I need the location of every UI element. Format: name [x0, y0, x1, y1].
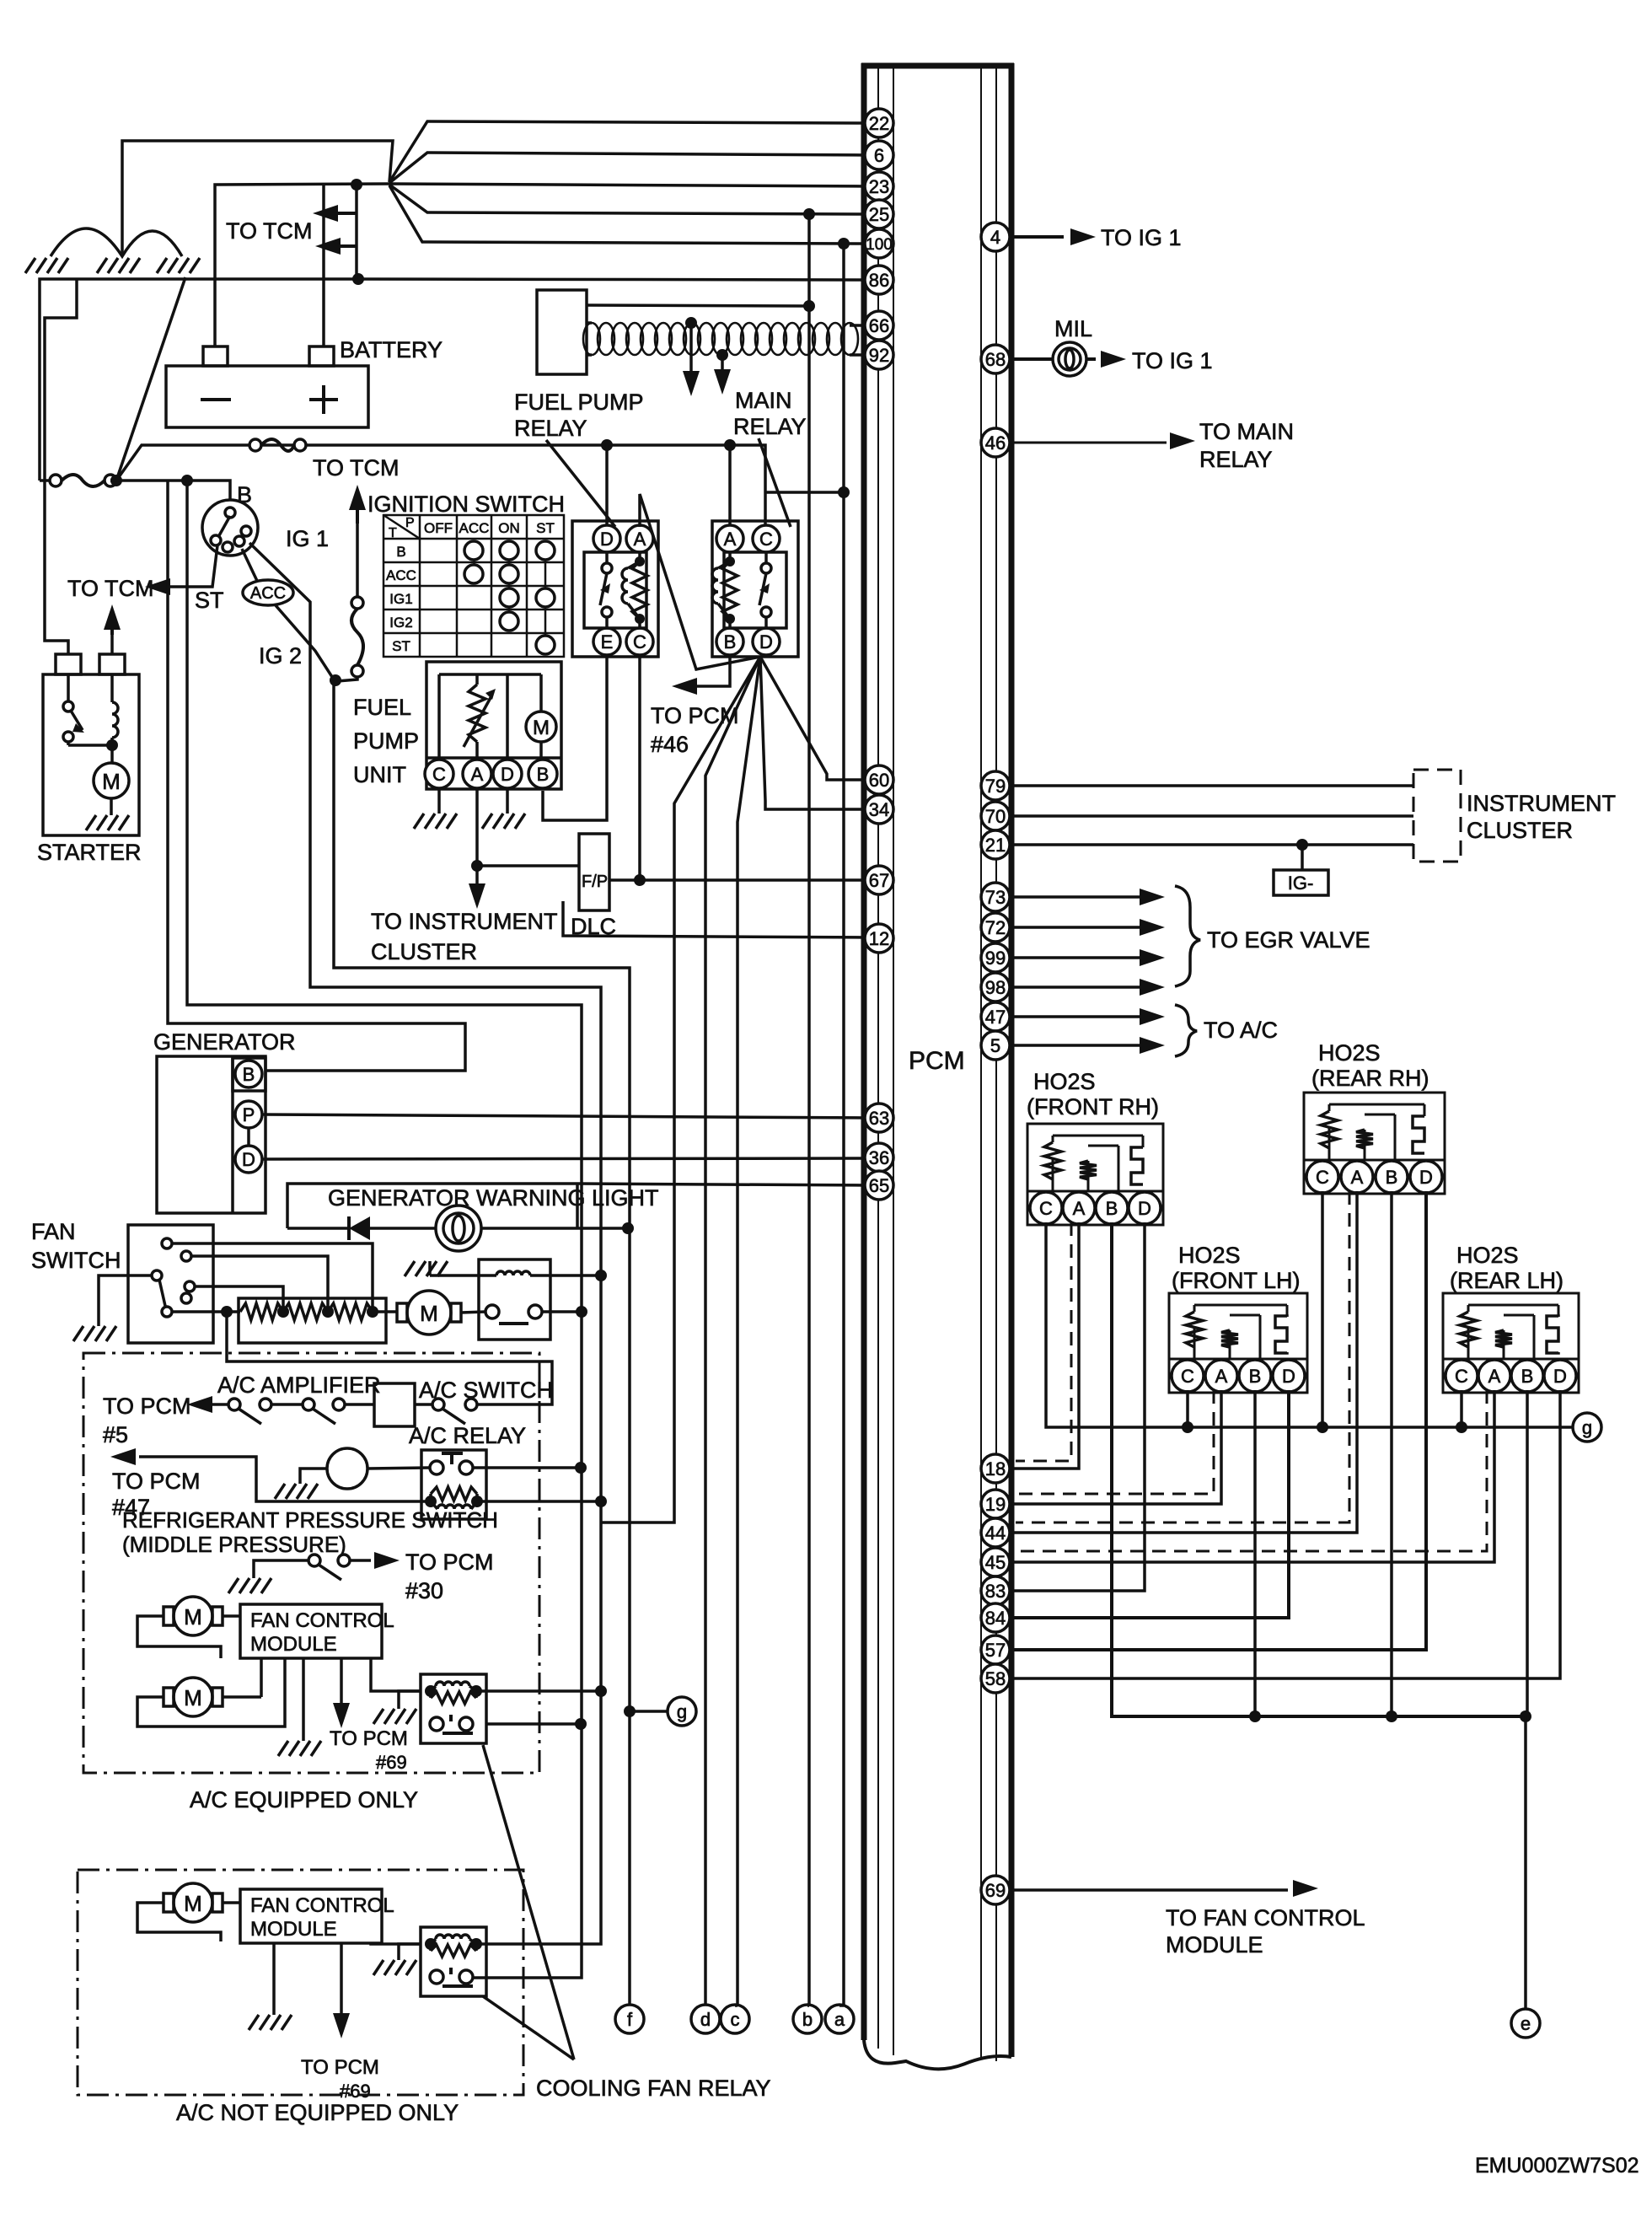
relay K3 blower relay [479, 1259, 550, 1340]
svg-text:B: B [1386, 1167, 1398, 1188]
svg-text:#69: #69 [376, 1752, 407, 1773]
brace A/C [1175, 1005, 1197, 1056]
svg-text:A: A [1073, 1198, 1086, 1219]
wire pin 21 to cluster [1011, 843, 1413, 846]
wire to pin 23 [389, 184, 868, 186]
svg-text:D: D [501, 764, 514, 785]
wire generator P to pin 63 [262, 1114, 868, 1118]
node e [1511, 2009, 1540, 2038]
wire FRONT LH D to pin 84 [1011, 1390, 1289, 1618]
svg-text:TO EGR VALVE: TO EGR VALVE [1207, 927, 1370, 953]
PCM pin 44 [981, 1518, 1010, 1547]
arrow to TCM 1 [313, 205, 338, 222]
svg-text:C: C [1039, 1198, 1053, 1219]
svg-text:63: 63 [869, 1108, 889, 1129]
wire to pin 100 [389, 185, 868, 244]
svg-text:34: 34 [869, 799, 889, 820]
svg-text:g: g [1582, 1417, 1592, 1438]
svg-text:6: 6 [874, 145, 884, 166]
svg-text:58: 58 [985, 1668, 1006, 1689]
svg-text:C: C [759, 529, 773, 550]
wire fan sw med [191, 1256, 328, 1312]
ground [97, 258, 140, 273]
svg-text:M: M [420, 1301, 438, 1326]
svg-text:84: 84 [985, 1608, 1006, 1629]
svg-text:UNIT: UNIT [353, 762, 406, 787]
wire A/C relay coil right [477, 1500, 601, 1503]
wire battery area top loop [122, 141, 393, 256]
svg-text:HO2S: HO2S [1178, 1243, 1241, 1268]
arrow TO TCM up [349, 485, 366, 510]
svg-text:TO PCM: TO PCM [112, 1469, 201, 1494]
ground [373, 1709, 416, 1724]
svg-text:B: B [237, 482, 252, 507]
PCM pin 92 [865, 341, 893, 369]
PCM pin 67 [865, 866, 893, 894]
PCM pin 6 [865, 141, 893, 169]
wire to pin 22 [389, 121, 868, 182]
svg-text:IG-: IG- [1288, 873, 1314, 894]
svg-text:98: 98 [985, 977, 1006, 998]
PCM pin 18 [981, 1454, 1010, 1483]
HO2S sensor (FRONT RH) [1027, 1124, 1163, 1225]
A/C relay coil+resistor [431, 1487, 477, 1501]
wire IG1 to corridor [249, 543, 601, 1944]
svg-text:100: 100 [866, 236, 893, 254]
wire main relay D fan to c-line [737, 657, 760, 2006]
svg-text:RELAY: RELAY [1199, 447, 1273, 472]
svg-text:A: A [724, 529, 737, 550]
svg-text:65: 65 [869, 1175, 889, 1196]
wire REAR LH D to pin 58 [1011, 1390, 1560, 1678]
PCM pin 63 [865, 1104, 893, 1132]
svg-text:E: E [601, 631, 614, 652]
PCM pin 72 [981, 913, 1010, 942]
PCM pin 46 [981, 428, 1010, 457]
wire coil box to junction [587, 305, 809, 306]
svg-text:92: 92 [869, 345, 889, 366]
fan motor M3 [174, 1883, 212, 1922]
svg-text:FAN CONTROL: FAN CONTROL [250, 1894, 394, 1917]
condenser coil winding [583, 323, 600, 355]
svg-text:a: a [834, 2009, 845, 2030]
svg-text:B: B [537, 764, 550, 785]
svg-text:ACC: ACC [386, 567, 416, 583]
svg-text:COOLING FAN RELAY: COOLING FAN RELAY [536, 2076, 771, 2101]
svg-text:FUEL PUMP: FUEL PUMP [514, 389, 644, 415]
svg-text:67: 67 [869, 870, 889, 891]
compressor clutch coil [327, 1448, 367, 1489]
wire A/C switch supply [227, 1312, 552, 1404]
svg-text:STARTER: STARTER [37, 840, 142, 865]
wire main relay D to pin 34 [760, 657, 868, 809]
svg-text:M: M [184, 1604, 202, 1630]
wire REAR RH D to pin 57 [1011, 1191, 1426, 1650]
callout fuel pump relay [546, 440, 615, 527]
wire A/C relay coil to PCM47 arrow [139, 1457, 431, 1501]
svg-text:(FRONT LH): (FRONT LH) [1172, 1268, 1301, 1293]
wire b-line (ignition feed) [807, 214, 811, 2006]
svg-text:P: P [405, 516, 415, 530]
wire main relay D to pin 60 [760, 657, 868, 780]
fan motor M1 [174, 1597, 212, 1635]
wire to node e [1524, 1716, 1527, 2010]
node b [793, 2005, 822, 2033]
svg-text:c: c [731, 2009, 740, 2030]
motor M starter [94, 763, 129, 798]
fan control module 2 [240, 1889, 382, 1943]
node g [1573, 1413, 1601, 1442]
PCM pin 23 [865, 172, 893, 201]
wire a-line [842, 244, 845, 2006]
dashed box A/C equipped only [83, 1353, 539, 1773]
ground [275, 1484, 318, 1499]
fan control module 1 [240, 1604, 382, 1658]
svg-text:60: 60 [869, 770, 889, 791]
svg-text:22: 22 [869, 113, 889, 134]
svg-text:PUMP: PUMP [353, 728, 419, 754]
warning light box right edge [576, 1184, 579, 1228]
wire main relay D fan to corridor line [601, 657, 760, 1522]
svg-text:12: 12 [869, 928, 889, 949]
wire pin 79 to cluster [1011, 784, 1413, 787]
ground [278, 1741, 321, 1756]
lamp warning light [436, 1206, 481, 1251]
IG- box [1301, 845, 1304, 870]
PCM pin 70 [981, 802, 1010, 830]
relay K5 cooling fan relay (A/C) [421, 1674, 486, 1743]
svg-text:A: A [471, 764, 484, 785]
svg-text:RELAY: RELAY [514, 416, 587, 441]
svg-text:70: 70 [985, 806, 1006, 827]
svg-text:C: C [1181, 1366, 1194, 1387]
svg-text:HO2S: HO2S [1318, 1040, 1381, 1066]
svg-text:FUEL: FUEL [353, 695, 411, 720]
wire F/P to pin 67 [609, 878, 868, 882]
wire FP relay C to F/P line [638, 657, 641, 880]
svg-text:A/C AMPLIFIER: A/C AMPLIFIER [217, 1372, 381, 1398]
PCM pin 47 [981, 1002, 1010, 1031]
wire fuel pump A to instrument cluster [475, 788, 479, 883]
wire fan sw lo [195, 1286, 283, 1312]
HO2S sensor (FRONT LH) [1169, 1293, 1307, 1393]
svg-text:D: D [1282, 1366, 1295, 1387]
svg-text:(REAR LH): (REAR LH) [1450, 1268, 1563, 1293]
ground fuel pump D [506, 788, 509, 814]
svg-text:47: 47 [985, 1007, 1006, 1028]
fuse F1 (battery to key) [50, 475, 62, 486]
svg-text:A: A [1488, 1366, 1501, 1387]
svg-text:MODULE: MODULE [1166, 1932, 1263, 1957]
wire battery minus to bus [215, 184, 389, 346]
PCM pin 73 [981, 883, 1010, 911]
svg-text:D: D [1553, 1366, 1567, 1387]
PCM pin 57 [981, 1635, 1010, 1664]
svg-text:FAN CONTROL: FAN CONTROL [250, 1609, 394, 1632]
PCM pin 19 [981, 1490, 1010, 1518]
PCM pin 4 [981, 223, 1010, 251]
svg-text:D: D [759, 631, 773, 652]
ground module 1 [302, 1658, 305, 1741]
node c [721, 2005, 749, 2033]
svg-text:d: d [700, 2009, 711, 2030]
svg-text:ST: ST [536, 520, 555, 536]
svg-text:21: 21 [985, 835, 1006, 856]
ground [25, 258, 68, 273]
wire battery rail to generator B [168, 481, 465, 1071]
svg-text:B: B [1249, 1366, 1262, 1387]
label TO TCM starter [104, 604, 121, 630]
ground [405, 1261, 448, 1276]
arrow down fuel pump relay [689, 323, 693, 371]
wire ST output [165, 545, 217, 587]
F/P check connector [579, 834, 609, 910]
wire IG2 to corridor [275, 604, 630, 2006]
svg-text:19: 19 [985, 1494, 1006, 1515]
svg-text:D: D [600, 529, 614, 550]
svg-text:M: M [184, 1685, 202, 1710]
A/C relay K4 [421, 1450, 486, 1519]
HO2S sensor (REAR RH) [1304, 1093, 1445, 1194]
svg-text:MIL: MIL [1054, 316, 1092, 341]
svg-text:C: C [633, 631, 646, 652]
wire warning light to pin 65 [577, 1184, 868, 1185]
svg-text:P: P [243, 1104, 255, 1125]
arrow module1 to PCM69 [340, 1658, 343, 1703]
svg-text:D: D [1419, 1167, 1433, 1188]
PCM pin 5 [981, 1031, 1010, 1060]
svg-text:#69: #69 [340, 2081, 371, 2102]
motor M blower [397, 1303, 407, 1322]
svg-text:#46: #46 [651, 732, 689, 757]
svg-text:B: B [1106, 1198, 1118, 1219]
PCM pin 65 [865, 1171, 893, 1200]
svg-text:23: 23 [869, 176, 889, 197]
dashed box A/C not equipped only [78, 1870, 523, 2095]
svg-text:PCM: PCM [909, 1047, 965, 1075]
svg-text:C: C [1455, 1366, 1468, 1387]
svg-text:C: C [432, 764, 446, 785]
PCM pin 58 [981, 1664, 1010, 1693]
PCM pin 86 [865, 266, 893, 294]
fuel pump relay coil box [537, 290, 587, 374]
svg-text:e: e [1521, 2013, 1531, 2034]
wire FRONT RH A to pin 18 [1011, 1222, 1079, 1469]
wire module1 to relay coil [371, 1658, 421, 1691]
svg-text:TO TCM: TO TCM [67, 576, 154, 601]
svg-text:CLUSTER: CLUSTER [371, 939, 477, 964]
svg-text:TO PCM: TO PCM [103, 1394, 191, 1419]
svg-text:A: A [1215, 1366, 1228, 1387]
svg-text:(FRONT RH): (FRONT RH) [1027, 1094, 1159, 1120]
wire pin 4 to IG1 [1011, 235, 1064, 239]
PCM pin 36 [865, 1143, 893, 1172]
svg-text:A/C EQUIPPED ONLY: A/C EQUIPPED ONLY [190, 1787, 418, 1812]
arrow module2 to PCM69 [340, 1943, 343, 2013]
svg-text:REFRIGERANT PRESSURE SWITCH: REFRIGERANT PRESSURE SWITCH [122, 1507, 498, 1533]
PCM pin 79 [981, 771, 1010, 800]
wire FRONT LH A to pin 19 [1011, 1390, 1221, 1504]
ground module 2 [272, 1943, 276, 2015]
svg-text:f: f [627, 2009, 633, 2030]
A/C arrows [1011, 1015, 1140, 1018]
svg-text:TO IG 1: TO IG 1 [1101, 225, 1182, 250]
svg-text:T: T [389, 526, 397, 540]
arrow to TCM 2 [315, 238, 341, 255]
svg-text:66: 66 [869, 315, 889, 336]
PCM module body [861, 63, 867, 2040]
wire K5 contact to bus [486, 1722, 581, 1726]
PCM pin 99 [981, 943, 1010, 972]
ground [73, 1326, 116, 1341]
PCM pin 69 [981, 1876, 1010, 1904]
ignition key switch B [202, 500, 258, 556]
wire A/C relay contact to bus [473, 1466, 581, 1469]
svg-text:D: D [242, 1149, 255, 1170]
wire DLC to pin 12 [563, 901, 868, 937]
svg-text:A/C RELAY: A/C RELAY [409, 1423, 526, 1448]
wire pin 70 to cluster [1011, 814, 1413, 818]
svg-text:MODULE: MODULE [250, 1918, 337, 1941]
svg-text:TO FAN CONTROL: TO FAN CONTROL [1166, 1905, 1365, 1931]
svg-text:TO TCM: TO TCM [313, 455, 400, 481]
battery B1 [166, 366, 368, 427]
wire FP relay E to fuel pump unit B [543, 657, 607, 820]
wire key bus [110, 481, 230, 501]
ground [86, 815, 129, 830]
svg-text:A/C SWITCH: A/C SWITCH [419, 1377, 553, 1403]
svg-text:86: 86 [869, 270, 889, 291]
svg-text:25: 25 [869, 204, 889, 225]
PCM pin 84 [981, 1603, 1010, 1632]
motor M fuel pump [526, 712, 556, 742]
wire pin 69 to fan control module [1011, 1888, 1288, 1892]
generator warning light box [287, 1184, 577, 1228]
svg-text:FAN: FAN [31, 1219, 76, 1244]
wire generator D to pin 36 [262, 1158, 868, 1159]
PCM pin 34 [865, 795, 893, 824]
svg-text:GENERATOR: GENERATOR [153, 1029, 296, 1055]
brace EGR [1175, 886, 1200, 986]
ground relay K6 [399, 1944, 421, 1960]
wire warning light row [287, 1227, 349, 1230]
svg-text:69: 69 [985, 1880, 1006, 1901]
svg-text:18: 18 [985, 1458, 1006, 1479]
node a [825, 2005, 854, 2033]
wire battery rail 2 (B+) [187, 481, 582, 1978]
wire FP relay A to main relay D [640, 494, 760, 669]
svg-text:83: 83 [985, 1581, 1006, 1602]
arrow down main relay [721, 355, 724, 369]
wire main relay supply [116, 445, 765, 527]
svg-text:45: 45 [985, 1552, 1006, 1573]
wire to pin 6 [389, 153, 868, 183]
svg-text:36: 36 [869, 1147, 889, 1168]
wire to pin 25 [389, 185, 868, 214]
svg-text:HO2S: HO2S [1456, 1243, 1519, 1268]
svg-text:ACC: ACC [459, 520, 490, 536]
starter [43, 674, 139, 835]
PCM pin 12 [865, 924, 893, 953]
svg-text:SWITCH: SWITCH [31, 1248, 121, 1273]
wire battery plus up [322, 184, 325, 346]
svg-text:ACC: ACC [250, 584, 286, 603]
svg-text:79: 79 [985, 776, 1006, 797]
svg-text:MODULE: MODULE [250, 1633, 337, 1656]
wire supply to a-line [765, 491, 844, 494]
svg-text:ST: ST [195, 588, 224, 613]
callout main relay [759, 438, 791, 527]
wire heater B common bus [1112, 1222, 1526, 1716]
svg-text:M: M [102, 769, 121, 794]
ground relay K5 [399, 1691, 421, 1709]
wire REAR LH A to pin 45 [1011, 1390, 1494, 1562]
svg-text:4: 4 [990, 227, 1000, 248]
svg-text:44: 44 [985, 1522, 1006, 1544]
wire main relay B to PCM46 arrow [697, 657, 730, 686]
wire g ground bus [1046, 1222, 1574, 1427]
svg-text:TO INSTRUMENT: TO INSTRUMENT [371, 909, 558, 934]
PCM pin 83 [981, 1576, 1010, 1605]
PCM pin 100 [865, 229, 893, 258]
ground [373, 1960, 416, 1975]
PCM pin 60 [865, 765, 893, 794]
svg-text:IG 2: IG 2 [259, 643, 302, 669]
svg-text:IG 1: IG 1 [286, 526, 329, 551]
svg-text:B: B [724, 631, 737, 652]
svg-text:b: b [802, 2009, 813, 2030]
svg-text:RELAY: RELAY [733, 414, 807, 439]
svg-text:46: 46 [985, 432, 1006, 454]
svg-text:M: M [533, 717, 550, 739]
wire module2 to relay coil [371, 1943, 421, 1944]
svg-text:C: C [1316, 1167, 1329, 1188]
wire fan switch ground [99, 1275, 152, 1326]
svg-text:IGNITION SWITCH: IGNITION SWITCH [367, 491, 565, 517]
svg-text:IG2: IG2 [389, 615, 412, 631]
svg-text:68: 68 [985, 349, 1006, 370]
fuel pump unit [426, 662, 561, 789]
contact ACC [243, 580, 293, 605]
ground [414, 814, 457, 829]
resistor block blower [239, 1298, 386, 1343]
fuse F2 (main relay supply) [249, 439, 261, 451]
svg-text:CLUSTER: CLUSTER [1467, 818, 1573, 843]
svg-text:ST: ST [392, 638, 410, 654]
node d [691, 2005, 720, 2033]
PCM pin 68 [981, 345, 1010, 373]
svg-text:BATTERY: BATTERY [340, 337, 442, 362]
relay K1 fuel pump relay [572, 521, 658, 657]
svg-text:A: A [1351, 1167, 1364, 1188]
svg-text:IG1: IG1 [389, 591, 412, 607]
wire TCM branch [355, 185, 358, 246]
wire K5 coil to corridor [476, 1689, 601, 1693]
svg-text:TO PCM: TO PCM [405, 1549, 494, 1575]
svg-text:5: 5 [990, 1035, 1000, 1056]
HO2S sensor (REAR LH) [1443, 1293, 1579, 1393]
ground [228, 1578, 271, 1593]
wire REAR RH A to pin 44 [1011, 1191, 1357, 1533]
svg-text:EMU000ZW7S02: EMU000ZW7S02 [1475, 2154, 1639, 2178]
ground fuel pump C [437, 788, 441, 814]
wire key junction diagonals [116, 277, 185, 481]
svg-text:A/C NOT EQUIPPED ONLY: A/C NOT EQUIPPED ONLY [176, 2100, 459, 2125]
callout cooling fan relays [483, 1745, 574, 2059]
svg-text:99: 99 [985, 948, 1006, 969]
ground [249, 2015, 292, 2030]
instrument cluster dashed box [1413, 770, 1461, 862]
